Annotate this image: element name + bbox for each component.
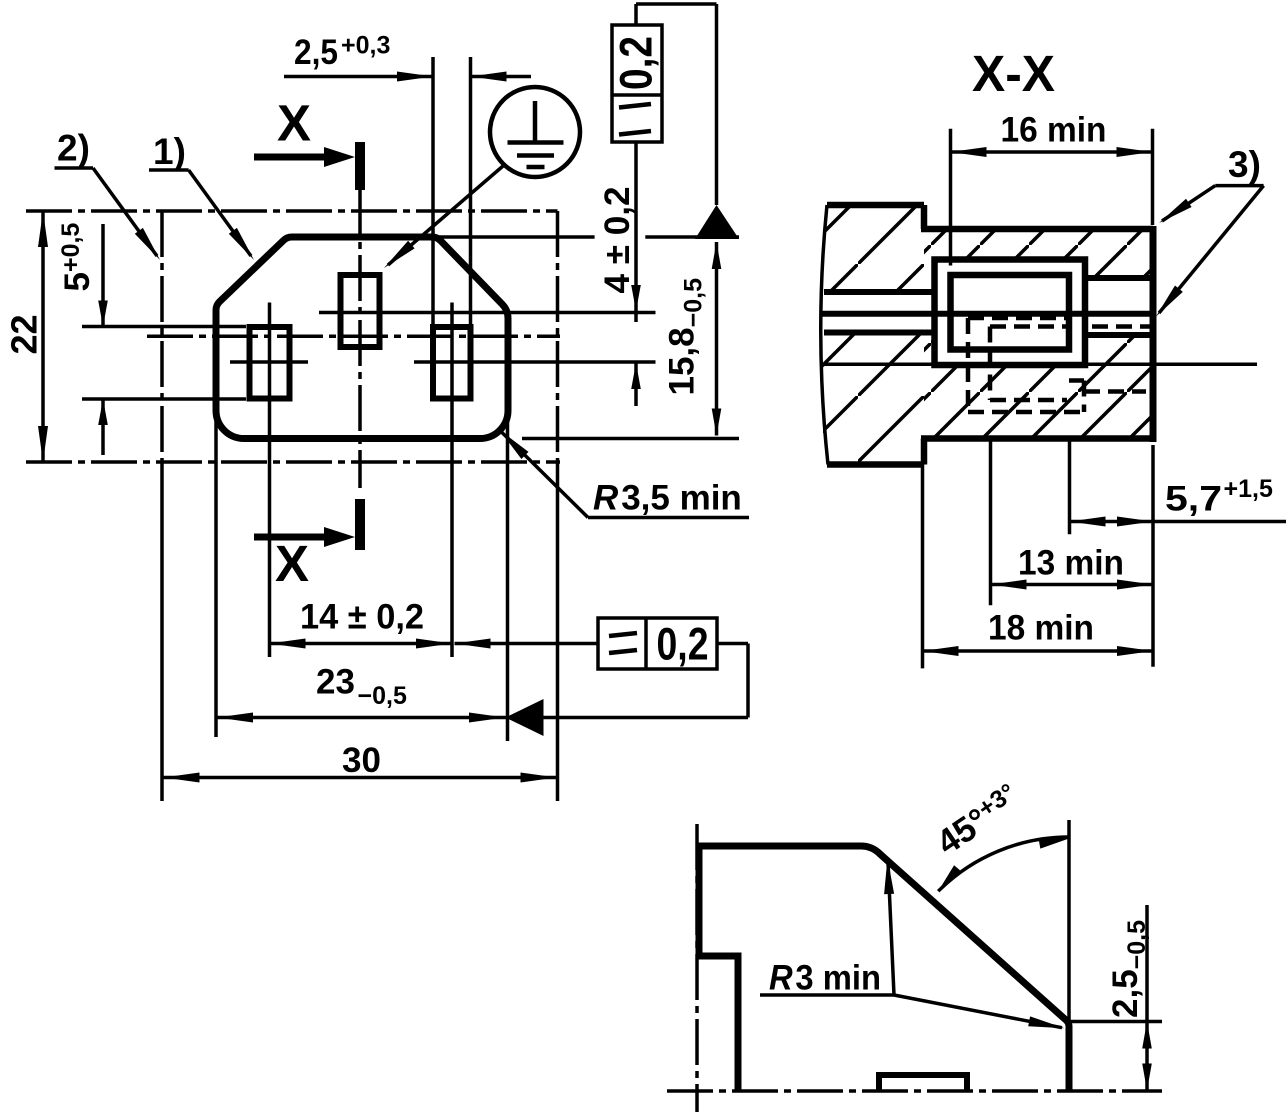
dimension 13 min line — [991, 583, 1154, 587]
dimension 2,5+0,3 line right — [471, 75, 532, 79]
feature control frame B parallelism symbol — [609, 633, 637, 636]
section right common extension — [1151, 445, 1155, 667]
section channel bottom wall — [824, 330, 935, 336]
feature control frame A box — [612, 25, 662, 142]
vertical centerline of connector — [358, 190, 362, 488]
radius R3,5 min leader — [500, 430, 529, 459]
svg-text:2): 2) — [57, 128, 90, 169]
section front face — [1150, 226, 1157, 442]
earth symbol glyph — [533, 101, 538, 142]
svg-text:+0,3: +0,3 — [341, 31, 390, 59]
angle dimension 45 arc — [938, 837, 1069, 891]
dimension 5+0,5 line — [101, 224, 105, 327]
feature control frame A parallelism symbol — [619, 104, 651, 108]
svg-text:1): 1) — [153, 131, 186, 172]
section cut arrow X top — [254, 154, 330, 161]
front view connector body outline — [216, 237, 508, 439]
svg-text:X: X — [275, 535, 309, 592]
dimension 18 min left extension — [921, 465, 925, 669]
svg-text:+1,5: +1,5 — [1224, 475, 1273, 503]
svg-text:4 ± 0,2: 4 ± 0,2 — [598, 187, 637, 294]
section cut arrow X bottom — [254, 534, 330, 541]
left pin slot — [250, 327, 290, 399]
right pin vertical centerline — [450, 303, 454, 658]
dimension 5,7+1,5 line — [1070, 520, 1286, 524]
left pin horizontal centerline — [230, 360, 308, 364]
dimension 4±0,2 line lower — [634, 363, 638, 406]
dimension 16 min line — [951, 150, 1153, 154]
datum centerline box top — [26, 209, 558, 213]
svg-text:0,2: 0,2 — [611, 36, 662, 90]
left edge extension line — [214, 412, 218, 737]
dimension 5,7 left extension — [1068, 441, 1072, 534]
datum centerline box right — [556, 211, 560, 462]
dimension 23-0,5 line — [217, 716, 748, 720]
radius R3 min leader to bottom corner — [894, 995, 1062, 1028]
detail vertical centerline — [695, 824, 699, 1112]
section flange hatch lower — [823, 333, 924, 465]
svg-text:X: X — [277, 95, 311, 152]
section body hatch upper — [924, 229, 1153, 292]
earth symbol leader arrow — [388, 166, 503, 265]
detail profile outline — [699, 846, 1069, 1091]
feature control frame B leader arrow — [455, 642, 599, 646]
section cavity outer wall — [935, 260, 1086, 366]
dimension 2,5+0,3 extension lines — [431, 57, 435, 324]
feature control frame B box — [598, 618, 717, 669]
dimension 13 min left extension — [989, 441, 993, 605]
section slot top wall — [1085, 275, 1153, 281]
right edge extension line — [506, 412, 510, 741]
feature control frame B leader to datum — [717, 642, 748, 646]
section flange outline — [827, 202, 924, 209]
dimension 30 line — [164, 776, 557, 780]
datum line 2) extension solid — [160, 462, 164, 801]
detail chamfer vertical extension — [1067, 820, 1071, 1022]
svg-text:3): 3) — [1228, 144, 1261, 185]
dimension 16 min extension lines — [949, 129, 953, 266]
section earth contact pin — [822, 311, 1153, 317]
earth pin horizontal centerline / 4mm reference — [319, 311, 656, 315]
dimension 18 min line — [923, 649, 1154, 653]
svg-text:16 min: 16 min — [1001, 111, 1107, 150]
dimension 2,5-0,5 extension line — [1065, 1020, 1162, 1024]
dimension 2,5-0,5 line — [1145, 905, 1149, 1090]
dimension 15,8-0,5 line — [715, 242, 719, 436]
svg-text:R 3,5 min: R 3,5 min — [593, 479, 742, 518]
right pin horizontal centerline / 4mm reference — [414, 360, 656, 364]
datum centerline box bottom — [26, 460, 560, 464]
svg-text:23: 23 — [316, 663, 355, 702]
earth symbol circle — [490, 87, 580, 177]
left pin vertical centerline — [268, 303, 272, 658]
svg-text:22: 22 — [4, 314, 45, 354]
detail baseline centerline — [667, 1089, 1162, 1093]
radius R3 min leader to top corner — [888, 862, 894, 995]
section centerline — [821, 363, 1257, 367]
feature control frame A leader to datum — [634, 4, 638, 25]
svg-text:0,2: 0,2 — [657, 619, 709, 670]
section body bottom edge — [921, 435, 1153, 442]
section body hatch lower — [924, 333, 1153, 439]
right extension below box — [556, 462, 560, 801]
dimension 14±0,2 line — [270, 642, 453, 646]
right pin slot — [433, 327, 471, 399]
detail key bump — [879, 1075, 967, 1091]
horizontal centerline of connector — [147, 334, 560, 338]
section break line arc — [821, 205, 828, 465]
section hidden plug outline — [968, 316, 1069, 321]
dimension 5+0,5 extension lines — [82, 325, 246, 329]
svg-text:5,7: 5,7 — [1165, 480, 1222, 519]
dimension 2,5+0,3 line left — [284, 75, 433, 79]
datum feature triangle top — [695, 205, 739, 239]
section cavity inner wall — [951, 275, 1070, 350]
section body top edge — [921, 226, 1153, 233]
section channel top wall — [824, 289, 935, 295]
section flange hatch upper — [823, 205, 924, 292]
dimension 22 line — [41, 211, 45, 462]
svg-text:R 3 min: R 3 min — [769, 959, 881, 998]
bottom edge extension line — [522, 437, 739, 441]
datum feature triangle right — [506, 699, 544, 736]
datum line 2) vertical dash-dot — [160, 211, 164, 462]
svg-text:14 ± 0,2: 14 ± 0,2 — [300, 598, 424, 637]
svg-text:−0,5: −0,5 — [358, 682, 407, 710]
svg-text:2,5: 2,5 — [294, 33, 338, 72]
top edge extension line — [437, 235, 595, 239]
svg-text:X-X: X-X — [972, 45, 1055, 102]
dimension 4±0,2 line upper — [634, 142, 638, 322]
svg-text:30: 30 — [342, 741, 381, 780]
section slot bottom wall — [1085, 332, 1153, 338]
earth pin slot — [341, 275, 380, 347]
svg-text:13 min: 13 min — [1018, 544, 1124, 583]
svg-text:18 min: 18 min — [988, 609, 1094, 648]
